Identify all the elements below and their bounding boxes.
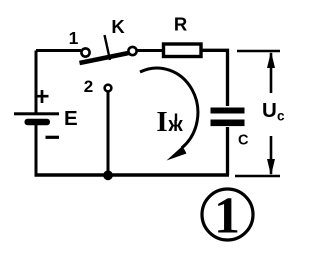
svg-text:c: c [277,109,285,124]
svg-text:1: 1 [214,188,240,245]
svg-text:C: C [238,133,249,149]
svg-text:R: R [174,14,187,35]
svg-text:K: K [111,16,125,37]
svg-text:I: I [156,106,167,138]
svg-text:1: 1 [69,28,79,48]
svg-text:E: E [64,107,78,130]
svg-text:U: U [262,99,277,122]
svg-text:2: 2 [84,77,93,96]
